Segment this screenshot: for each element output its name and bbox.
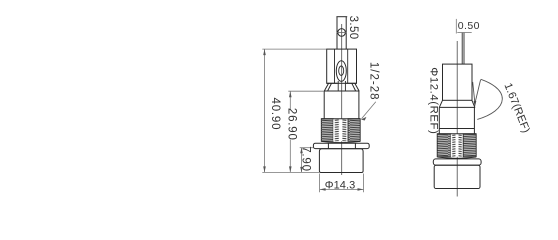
- flare skirt (right view): [439, 100, 475, 107]
- threaded section (right view): [437, 134, 476, 157]
- dim line Phi14.3: [320, 188, 364, 191]
- bayonet slot inner oval: [339, 66, 344, 75]
- thread runout curve (right view): [437, 157, 476, 158]
- hex nut (left view): [313, 143, 369, 148]
- svg-text:3.50: 3.50: [347, 16, 359, 40]
- terminal hole circle: [337, 29, 347, 37]
- dim Phi14.3 extensions: [320, 174, 364, 193]
- dim 26.90 extension top: [288, 90, 324, 92]
- svg-text:Φ12.4(REF): Φ12.4(REF): [427, 67, 439, 134]
- dim line 40.90: [263, 49, 266, 172]
- rear cap (left view): [319, 149, 363, 173]
- svg-text:1/2-28: 1/2-28: [367, 62, 379, 101]
- dim text 26.90: [286, 108, 298, 141]
- dim text 7.90: [300, 146, 312, 172]
- wide section (right view): [439, 107, 474, 133]
- bayonet slot outer oval: [336, 61, 346, 82]
- centerline right view: [456, 41, 458, 197]
- svg-text:0.50: 0.50: [458, 20, 480, 32]
- nut band (right view): [433, 159, 481, 165]
- shoulder ledge: [327, 82, 357, 84]
- dim text 0.50: [458, 20, 480, 32]
- dimension text 3.50: [347, 16, 359, 40]
- dim text 1.67(REF): [502, 82, 532, 135]
- terminal tab edge-on (right view): [462, 33, 464, 65]
- dia label Phi12.4(REF): [427, 67, 439, 134]
- svg-text:40.90: 40.90: [269, 98, 281, 131]
- dim 40.90 extension top: [262, 48, 326, 50]
- dim line 26.90: [289, 91, 292, 172]
- body (right view): [443, 64, 473, 100]
- svg-text:Φ14.3: Φ14.3: [325, 179, 355, 191]
- terminal tab (left view): [336, 17, 347, 49]
- long arrow wedge (right view): [473, 80, 481, 107]
- rear cap (right view): [434, 165, 480, 188]
- upper body / cap head (left view): [327, 49, 357, 83]
- thread spec text 1/2-28: [367, 62, 379, 101]
- svg-text:7.90: 7.90: [300, 146, 312, 172]
- barrel (left view): [324, 91, 359, 119]
- carrier post lines through flange: [338, 81, 345, 91]
- centerline left view: [341, 24, 343, 175]
- dim 0.50 lines: [456, 19, 471, 34]
- thread callout leader 1/2-28: [361, 102, 376, 121]
- dim text 40.90: [269, 98, 281, 131]
- dim 40.90 extension bottom (shared): [262, 171, 319, 173]
- threaded section (left view): [321, 119, 360, 142]
- svg-text:26.90: 26.90: [286, 108, 298, 141]
- svg-text:1.67(REF): 1.67(REF): [502, 82, 532, 135]
- dim 7.90 extension top: [300, 147, 314, 149]
- thread runout curve (left view): [322, 141, 361, 142]
- rotation arc leader (right view): [477, 79, 502, 119]
- dim text Phi14.3: [325, 179, 355, 191]
- knurled flange with chamfers (left view): [324, 83, 360, 91]
- dim line 7.90: [300, 148, 303, 173]
